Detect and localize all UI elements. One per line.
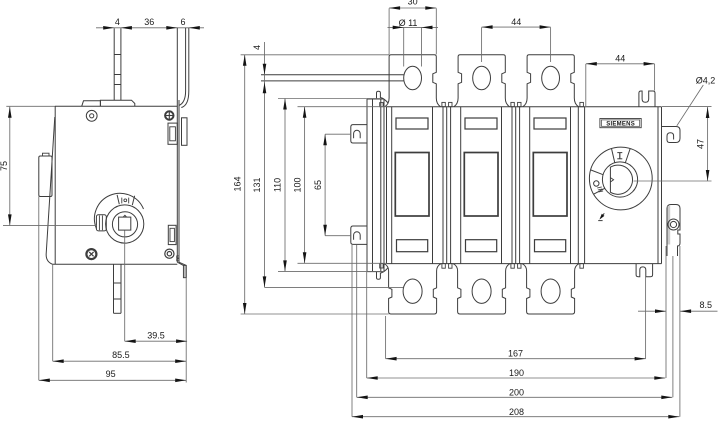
pole 2 top label window (465, 118, 497, 129)
pole 1 bottom label window (397, 240, 428, 252)
pole 1 bottom terminal tab (384, 264, 441, 314)
dim 190 (366, 272, 368, 378)
svg-text:4: 4 (252, 45, 262, 50)
body bottom edge (53, 263, 178, 265)
handle ring (602, 162, 637, 197)
plate face inner (178, 100, 180, 262)
dim 164 (241, 54, 390, 56)
leader diam 4.2 (677, 85, 704, 126)
svg-text:200: 200 (509, 388, 524, 398)
sector lines ON (612, 149, 615, 163)
svg-text:164: 164 (232, 176, 242, 191)
dim 8.5 (638, 310, 666, 312)
body left edge (54, 106, 56, 264)
cover slant edge (46, 117, 55, 264)
shaft notch (123, 215, 126, 217)
moulding bottom edge (387, 263, 662, 265)
bottom mounting ear (636, 264, 653, 277)
pole 3 bottom terminal tab (522, 264, 579, 314)
pole 2 bottom terminal tab (453, 264, 510, 314)
inter-pole ribs (442, 107, 444, 264)
top mounting ear (639, 91, 655, 107)
screw bottom-left (86, 249, 96, 259)
svg-text:39.5: 39.5 (147, 331, 165, 341)
screw bottom-right outer (165, 249, 174, 258)
svg-text:8.5: 8.5 (700, 300, 713, 310)
pole 3 fuse window (533, 153, 567, 217)
dim line 4/36/6 (top of side view) (96, 27, 204, 29)
handle left lug (96, 215, 106, 231)
pole 2 top terminal hole (473, 66, 491, 90)
svg-text:4: 4 (115, 17, 120, 27)
pole 2 bottom label window (466, 240, 497, 252)
svg-text:36: 36 (144, 17, 154, 27)
svg-text:Ø 11: Ø 11 (399, 18, 418, 28)
pole 3 top terminal hole (542, 66, 560, 90)
shaft pointer (610, 178, 613, 182)
dim 208 (351, 245, 353, 417)
plate face line (176, 28, 178, 262)
svg-text:30: 30 (408, 0, 418, 6)
svg-text:44: 44 (615, 54, 625, 64)
top tab 2 (100, 100, 134, 106)
moulding top edge (387, 106, 662, 108)
ext 208 right (679, 246, 681, 417)
upper left clip (351, 125, 367, 143)
screw top-left outer (86, 110, 97, 121)
mechanism housing right edges (657, 107, 659, 264)
bus bar top edge (261, 74, 404, 76)
plate foot (177, 262, 183, 265)
rivet 1 (177, 256, 179, 258)
pole 3 top terminal tab (523, 55, 579, 107)
dim 30 (389, 7, 436, 9)
terminal bolt top (113, 28, 115, 100)
svg-text:SIEMENS: SIEMENS (606, 121, 635, 127)
svg-text:95: 95 (106, 369, 116, 379)
svg-text:75: 75 (0, 161, 9, 171)
handle square shaft (119, 217, 131, 230)
dim 44 pole pitch (482, 26, 551, 28)
DIN clip with 4.2 hole (662, 127, 681, 143)
claw circle inner (670, 221, 676, 227)
dim 95 (38, 197, 40, 381)
dim 167 (385, 316, 387, 359)
screw top-right (165, 111, 173, 119)
dim 85.5 (52, 264, 54, 361)
ext 75 bottom / handle centerline (3, 225, 96, 227)
ext 75 top (6, 105, 55, 107)
svg-text:Ø4,2: Ø4,2 (696, 75, 716, 85)
svg-text:85.5: 85.5 (112, 350, 130, 360)
dim 100 (298, 106, 387, 108)
terminal lug (39, 156, 52, 197)
dim 4 and dim 131 (264, 42, 266, 287)
svg-text:208: 208 (509, 407, 524, 417)
pole 2 bottom terminal hole (472, 279, 491, 303)
svg-text:100: 100 (292, 177, 302, 192)
dim 65 (325, 133, 351, 135)
svg-text:110: 110 (273, 178, 283, 192)
screw top-left inner (90, 114, 94, 118)
arrow dim4 left (103, 26, 114, 30)
svg-text:44: 44 (511, 17, 521, 27)
ext right bottom dims (185, 278, 187, 383)
dim 44 to handle (586, 63, 655, 65)
handle ring (112, 212, 137, 237)
handle escutcheon arc (94, 193, 143, 228)
pole 2 fuse carrier (460, 107, 462, 264)
pole 2 top terminal tab (454, 55, 510, 107)
O marking (594, 181, 599, 186)
handle D-shaft (610, 165, 632, 194)
ribs before mechanism housing (577, 107, 579, 264)
pole 1 fuse window (395, 153, 429, 217)
upper DIN clip (182, 118, 188, 146)
foot left of pole 1 (380, 103, 383, 107)
bus bar bottom edge (261, 80, 404, 82)
end plate top finger (377, 91, 389, 103)
ext 190 right (665, 246, 667, 378)
svg-text:65: 65 (313, 180, 323, 190)
sector lines OFF (591, 170, 604, 175)
dim 110 (278, 98, 381, 100)
claw circle outer (668, 219, 679, 230)
handle outer circle (106, 205, 144, 243)
SIEMENS label box (600, 119, 641, 128)
claw shading (668, 206, 671, 245)
left end plate (366, 99, 368, 272)
pole 2 fuse window (464, 153, 498, 217)
arrow dim6 right (189, 26, 200, 30)
screw bottom-right inner (167, 252, 171, 256)
dim 39.5 (124, 231, 126, 342)
pole 1 top label window (396, 118, 428, 129)
pole 1 top terminal tab (385, 55, 441, 107)
dim diam 11 (388, 26, 439, 28)
plate top bent tab (185, 28, 187, 91)
moulding left edge (386, 107, 388, 264)
pole 3 fuse carrier (529, 107, 531, 264)
ext 200 right (672, 256, 674, 397)
svg-text:47: 47 (695, 139, 705, 149)
rivet 2 (177, 259, 179, 261)
terminal bolt bottom (113, 265, 115, 314)
rotation direction arrow (601, 213, 605, 218)
end plate bottom finger (377, 267, 389, 279)
dim 47 (662, 105, 712, 107)
lug step (43, 153, 50, 156)
rail claw bracket (667, 205, 680, 257)
ext 167 right (645, 277, 647, 359)
svg-text:190: 190 (509, 368, 524, 378)
handle centreline / ext 47 (634, 180, 712, 182)
body top edge (55, 105, 177, 107)
svg-text:6: 6 (180, 17, 185, 27)
dim 75 (9, 107, 11, 226)
pole 1 fuse carrier (391, 107, 393, 264)
arrow dim4/36 (121, 26, 132, 30)
pole 1 bottom terminal hole (403, 279, 422, 303)
I marking (617, 152, 622, 154)
pole 3 top label window (534, 118, 566, 129)
handle outer circle (589, 147, 652, 210)
svg-text:131: 131 (252, 177, 262, 192)
inter-pole ribs (511, 107, 513, 264)
dim 200 (356, 245, 358, 397)
top tab 1 (82, 101, 101, 107)
handle I-tab (117, 195, 119, 204)
lower DIN clip (168, 225, 176, 244)
pole 1 top terminal hole (404, 66, 422, 90)
lower left clip (351, 226, 367, 244)
arrow dim36/6 (166, 26, 177, 30)
pole 3 bottom label window (535, 240, 566, 252)
svg-text:167: 167 (508, 348, 523, 358)
pole 3 bottom terminal hole (541, 279, 560, 303)
